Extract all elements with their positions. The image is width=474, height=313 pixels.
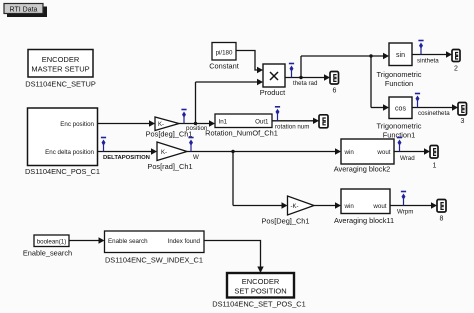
svg-text:win: win [344,203,355,210]
svg-text:sin: sin [396,52,405,59]
svg-text:MASTER SETUP: MASTER SETUP [31,65,89,74]
svg-text:wout: wout [372,203,386,210]
test point cosinetheta [415,93,420,108]
svg-text:pi/180: pi/180 [216,50,233,57]
svg-text:Enc position: Enc position [60,121,94,128]
svg-text:wout: wout [376,149,390,156]
svg-text:ENCODER: ENCODER [42,55,80,64]
block ENCODER SET POSITION [212,273,306,309]
svg-text:Pos[rad]_Ch1: Pos[rad]_Ch1 [147,162,192,171]
wire Constant to Product [236,51,263,74]
svg-text:cosinetheta: cosinetheta [418,110,450,117]
svg-text:ENCODER: ENCODER [242,277,280,286]
wire Enc position [98,120,156,126]
outport 8 [437,200,446,223]
svg-text:Wrpm: Wrpm [397,209,413,216]
svg-text:6: 6 [333,88,337,95]
svg-text:DS1104ENC_POS_C1: DS1104ENC_POS_C1 [25,167,100,176]
block boolean(1) [23,235,72,258]
test point rotation num [275,106,280,121]
wire theta rad to sin [301,53,389,78]
wire Index found to SET POSITION [204,241,264,274]
gain Pos[deg]_Ch1 [146,117,193,139]
outport 1 [430,146,438,170]
test point Wrpm [401,191,406,206]
wire to cos [371,56,389,111]
svg-text:Wrad: Wrad [400,155,415,162]
svg-text:2: 2 [454,66,458,73]
test point theta rad [289,63,294,78]
svg-text:K-: K- [161,150,167,156]
svg-text:Averaging block11: Averaging block11 [334,216,394,225]
block Rotation_NumOf_Ch1 [205,114,278,138]
outport 6 [330,72,339,95]
svg-text:win: win [344,149,355,156]
wire Pos[Deg] out [314,202,341,208]
svg-text:cos: cos [395,106,406,113]
svg-text:1: 1 [433,163,437,170]
svg-text:Enable search: Enable search [108,238,148,245]
gain Pos[rad]_Ch1 [147,142,192,171]
svg-text:Function: Function [385,79,413,88]
junction theta rad [299,76,302,79]
svg-text:Averaging block2: Averaging block2 [334,165,391,174]
wire W [187,148,341,161]
wire position [179,120,215,132]
svg-text:DS1104ENC_SETUP: DS1104ENC_SETUP [25,80,96,89]
svg-text:3: 3 [461,118,465,125]
svg-text:Index found: Index found [168,238,201,245]
svg-text:Pos[Deg]_Ch1: Pos[Deg]_Ch1 [261,217,309,226]
svg-text:sintheta: sintheta [417,58,439,65]
block Averaging block11 [334,189,394,225]
svg-text:Enc delta position: Enc delta position [45,149,94,156]
svg-text:W: W [193,154,199,161]
svg-text:theta rad: theta rad [293,80,318,87]
wire theta rad [285,74,330,87]
wire rotation num [272,118,319,131]
wire Wrpm [390,202,437,215]
svg-text:Rotation_NumOf_Ch1: Rotation_NumOf_Ch1 [205,129,278,138]
outport 3 [458,103,467,126]
RTI Data tag [4,4,47,18]
svg-text:boolean(1): boolean(1) [37,239,67,246]
block ENCODER MASTER SETUP [25,50,96,89]
test point Wrad [397,137,402,152]
svg-text:K-: K- [158,122,164,128]
block Trigonometric Function1 cos [377,97,422,140]
svg-text:DS1104ENC_SW_INDEX_C1: DS1104ENC_SW_INDEX_C1 [105,256,203,265]
gain Pos[Deg]_Ch1 [261,196,314,226]
junction position [194,122,197,125]
block Constant pi/180 [209,43,239,71]
wire Enable search [69,237,105,243]
wire Wrad [394,148,430,162]
junction sin/cos [369,54,372,57]
wire position to Product [196,79,264,124]
svg-text:rotation num: rotation num [275,123,309,130]
test point sintheta [418,40,423,55]
svg-text:8: 8 [440,216,444,223]
svg-text:RTI Data: RTI Data [10,7,38,14]
svg-text:Constant: Constant [209,62,239,71]
outport rotation num [319,115,328,128]
block Averaging block2 [334,139,394,174]
wire sintheta [412,51,452,64]
junction W [231,150,234,153]
block Product [260,64,285,97]
svg-text:DELTAPOSITION: DELTAPOSITION [103,155,150,161]
svg-text:Trigonometric: Trigonometric [377,122,422,131]
svg-text:Out1: Out1 [255,119,269,126]
svg-text:In1: In1 [219,119,228,126]
wire W to Pos[Deg]_Ch1 [233,152,288,209]
svg-text:Product: Product [260,88,285,97]
block Trigonometric Function sin [377,43,422,88]
block DS1104ENC_POS_C1 [25,108,100,176]
svg-text:SET POSITION: SET POSITION [234,287,286,296]
svg-text:Enable_search: Enable_search [23,249,72,258]
svg-text:DS1104ENC_SET_POS_C1: DS1104ENC_SET_POS_C1 [212,300,306,309]
wire cosinetheta [412,104,458,117]
test point W [188,137,193,152]
svg-text:-K-: -K- [291,204,299,210]
outport 2 [452,50,460,73]
svg-text:Trigonometric: Trigonometric [377,70,422,79]
test point DELTAPOSITION [101,137,106,152]
wire Enc delta position [98,148,158,161]
test point position [181,109,186,124]
block DS1104ENC_SW_INDEX_C1 [105,231,205,265]
